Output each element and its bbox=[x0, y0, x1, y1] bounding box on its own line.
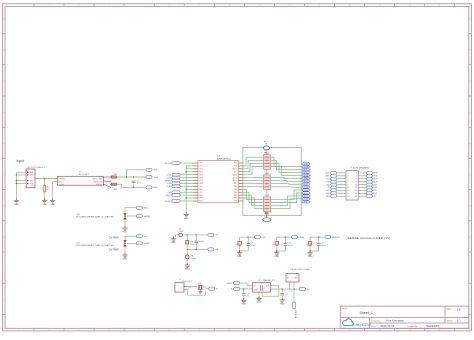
net flag SEGF2 bbox=[302, 201, 309, 204]
net flag AGND bbox=[208, 248, 214, 251]
svg-text:SEGF2: SEGF2 bbox=[303, 202, 308, 204]
net flag SEGD2 bbox=[302, 195, 309, 198]
capacitor C1 output bbox=[133, 177, 135, 179]
svg-text:Your Company: Your Company bbox=[386, 319, 404, 323]
wire cell L5 top bbox=[310, 236, 325, 238]
svg-text:FB2: FB2 bbox=[114, 189, 117, 191]
svg-text:DIG2: DIG2 bbox=[326, 193, 330, 195]
svg-text:L4: L4 bbox=[272, 244, 274, 246]
connector J1 bbox=[346, 171, 358, 201]
svg-text:OUT: OUT bbox=[266, 285, 270, 287]
wire SENSE4 to IC1 bbox=[180, 180, 193, 182]
svg-text:L3: L3 bbox=[235, 244, 237, 246]
svg-text:REV:: REV: bbox=[447, 309, 452, 311]
net flag REF bbox=[136, 235, 142, 238]
wire U4 pins down bbox=[289, 282, 291, 289]
wires J1 left bbox=[337, 173, 346, 196]
ground input rail bbox=[14, 198, 19, 203]
title block row line 2 bbox=[370, 322, 469, 324]
net flag REF bbox=[172, 191, 180, 194]
svg-text:1u: 1u bbox=[264, 287, 266, 289]
svg-text:PB0: PB0 bbox=[234, 198, 237, 200]
svg-text:XC1: XC1 bbox=[198, 283, 202, 285]
easyeda logo bbox=[343, 319, 354, 326]
net flag +3V3 bbox=[254, 236, 260, 239]
wires J1 right bbox=[358, 173, 366, 196]
svg-text:PC4: PC4 bbox=[234, 166, 238, 168]
svg-text:PD6: PD6 bbox=[199, 198, 203, 200]
resistor network RN2 bbox=[264, 175, 271, 190]
svg-text:Input: Input bbox=[17, 159, 25, 163]
svg-text:VBUS-IN: VBUS-IN bbox=[294, 311, 296, 319]
junction opamp input bbox=[243, 288, 244, 289]
svg-text:DIG5: DIG5 bbox=[373, 184, 377, 186]
svg-text:PB6: PB6 bbox=[199, 189, 202, 191]
svg-text:SW/Ind 3V3: SW/Ind 3V3 bbox=[93, 179, 103, 181]
svg-text:DRVIN: DRVIN bbox=[166, 195, 172, 197]
svg-text:SAGND: SAGND bbox=[143, 215, 150, 218]
svg-text:J: J bbox=[470, 299, 471, 301]
ground cell L5 bbox=[308, 251, 313, 256]
net flag SEGF1 bbox=[302, 177, 309, 180]
capacitor C13 out bbox=[281, 289, 283, 293]
svg-text:Company:: Company: bbox=[371, 320, 381, 322]
svg-text:14: 14 bbox=[355, 190, 357, 192]
svg-text:GND: GND bbox=[50, 204, 55, 206]
title block row line 1 bbox=[340, 317, 469, 319]
svg-text:ICP1 (MLW66): ICP1 (MLW66) bbox=[353, 167, 369, 169]
inductor L3 bbox=[239, 237, 241, 242]
wire DRVIN to IC1 bbox=[180, 194, 193, 196]
net flag VSW bbox=[146, 175, 152, 178]
ground L1 input bbox=[171, 237, 176, 242]
ground crystal bbox=[198, 290, 202, 293]
svg-text:3: 3 bbox=[347, 176, 348, 178]
svg-text:7: 7 bbox=[347, 181, 348, 183]
svg-text:15: 15 bbox=[347, 193, 349, 195]
net flag VBUS vertical bbox=[293, 302, 296, 309]
pin U1 outputs bbox=[104, 177, 112, 187]
svg-text:4K7: 4K7 bbox=[46, 189, 49, 191]
net flag opamp in a bbox=[234, 282, 241, 285]
junction cell L3 gnd bbox=[239, 250, 240, 251]
svg-text:100nF: 100nF bbox=[288, 245, 294, 247]
wire L1 left to ground bbox=[176, 235, 185, 237]
svg-text:AREF(1V): AREF(1V) bbox=[332, 236, 341, 239]
svg-text:CON5: CON5 bbox=[166, 186, 171, 188]
svg-text:PWRIN: PWRIN bbox=[59, 179, 66, 181]
svg-text:REF1N: REF1N bbox=[227, 283, 234, 285]
net flag DRVIN bbox=[172, 194, 180, 197]
net flag +5V out bbox=[299, 288, 306, 291]
svg-text:GND: GND bbox=[280, 303, 285, 305]
svg-text:11: 11 bbox=[347, 187, 349, 189]
title block outline bbox=[340, 306, 469, 328]
net flag SENSE bbox=[136, 242, 142, 245]
junction R6 tap bbox=[44, 178, 45, 179]
net flag SEGB1 bbox=[302, 165, 309, 168]
svg-text:PB4: PB4 bbox=[234, 186, 237, 188]
pins IC1 left bbox=[193, 163, 198, 201]
svg-text:12: 12 bbox=[355, 187, 357, 189]
svg-text:SEGG: SEGG bbox=[373, 178, 379, 180]
svg-text:17: 17 bbox=[347, 196, 349, 198]
svg-text:PC6: PC6 bbox=[234, 201, 238, 203]
svg-text:RST: RST bbox=[327, 181, 330, 183]
svg-text:PB2: PB2 bbox=[234, 192, 237, 194]
title block divider logo bbox=[369, 318, 371, 329]
junction cell L4 gnd bbox=[276, 250, 277, 251]
junction cell L3 bbox=[248, 236, 249, 237]
svg-text:1u: 1u bbox=[247, 295, 249, 297]
svg-text:GND: GND bbox=[171, 242, 176, 244]
capacitor C12 bbox=[318, 237, 320, 244]
svg-text:PGND: PGND bbox=[59, 184, 65, 186]
svg-text:GND: GND bbox=[42, 204, 47, 206]
svg-text:Date:: Date: bbox=[371, 325, 377, 328]
svg-text:MAX604-3.3: MAX604-3.3 bbox=[263, 279, 275, 282]
svg-text:PD3: PD3 bbox=[199, 171, 203, 173]
junction cell L5 bbox=[318, 236, 319, 237]
net flag opamp in b bbox=[234, 287, 241, 290]
svg-text:+3V3: +3V3 bbox=[153, 170, 157, 172]
svg-text:5: 5 bbox=[347, 178, 348, 180]
net flag SEGB2 bbox=[302, 189, 309, 192]
net flag SEGA2 bbox=[302, 186, 309, 189]
resistor R6 bbox=[44, 179, 46, 186]
svg-text:RN1: RN1 bbox=[265, 153, 269, 155]
svg-text:SENSE: SENSE bbox=[143, 243, 150, 245]
wire cell L3 bottom bbox=[240, 250, 249, 252]
ground cell L3 bbox=[237, 251, 242, 256]
svg-text:+5V0B: +5V0B bbox=[153, 177, 159, 179]
svg-text:PB7: PB7 bbox=[199, 192, 202, 194]
net flag SENSE4 bbox=[172, 179, 180, 182]
svg-text:GND: GND bbox=[123, 231, 128, 233]
svg-text:GND: GND bbox=[123, 258, 128, 260]
svg-text:DIG1: DIG1 bbox=[326, 190, 330, 192]
svg-text:PD0: PD0 bbox=[199, 163, 203, 165]
svg-text:100nF: 100nF bbox=[199, 241, 205, 243]
svg-text:PB5: PB5 bbox=[234, 183, 237, 185]
svg-text:PD1: PD1 bbox=[199, 166, 203, 168]
ground C13 bbox=[280, 298, 285, 303]
svg-text:ADP3-NET: ADP3-NET bbox=[79, 173, 90, 176]
wire REF to IC1 bbox=[180, 191, 193, 193]
svg-text:EasyEDA: EasyEDA bbox=[352, 323, 371, 327]
svg-text:ACSET: ACSET bbox=[165, 200, 171, 203]
resistor network RN1 bbox=[264, 155, 271, 170]
svg-text:OUT: OUT bbox=[294, 278, 298, 280]
wire opamp input bbox=[240, 283, 253, 285]
svg-text:PD2: PD2 bbox=[199, 169, 203, 171]
wire IC3 output loop bbox=[262, 285, 279, 296]
svg-text:1.0: 1.0 bbox=[457, 308, 461, 312]
wire IC3 ground bbox=[258, 292, 260, 297]
svg-text:18: 18 bbox=[355, 196, 357, 198]
junction input rail bbox=[16, 174, 17, 175]
svg-text:J: J bbox=[3, 299, 4, 301]
pins Y1 bbox=[184, 286, 187, 288]
wire L1 output row bbox=[185, 234, 208, 236]
wire R6 to ground bbox=[44, 192, 46, 199]
wire CON5 to IC1 bbox=[180, 185, 193, 187]
wire CON3 to IC1 bbox=[180, 182, 193, 184]
svg-text:PD7: PD7 bbox=[199, 201, 203, 203]
junction cell L5 gnd bbox=[309, 250, 310, 251]
svg-text:PB3: PB3 bbox=[234, 189, 237, 191]
pin numbers J1 bbox=[347, 173, 356, 198]
svg-text:GND: GND bbox=[185, 268, 190, 270]
junction L1 b bbox=[187, 249, 188, 250]
wire RN1 to RN2 link bbox=[266, 169, 268, 175]
svg-text:2V REF: 2V REF bbox=[109, 248, 119, 252]
net flag PD0 row1 bbox=[172, 162, 180, 165]
capacitor inside IC3 bbox=[260, 285, 262, 291]
svg-text:PD4: PD4 bbox=[199, 174, 203, 176]
connector J4 bbox=[26, 169, 35, 188]
capacitor C16 bbox=[195, 235, 197, 241]
wire RN right staircase to labels bbox=[270, 157, 302, 209]
wire CONV to IC1 bbox=[180, 174, 193, 176]
svg-text:TITLE:: TITLE: bbox=[342, 308, 348, 310]
svg-text:MISO: MISO bbox=[326, 176, 331, 178]
svg-text:F1: F1 bbox=[264, 141, 266, 143]
svg-text:Stellar823: Stellar823 bbox=[427, 324, 440, 328]
net flag CON3 bbox=[172, 182, 180, 185]
svg-text:100nF: 100nF bbox=[321, 245, 327, 247]
junction FB1 node bbox=[126, 176, 127, 177]
svg-text:SEGF: SEGF bbox=[373, 176, 378, 178]
svg-text:1/1: 1/1 bbox=[457, 319, 461, 323]
svg-text:GND: GND bbox=[14, 204, 19, 206]
svg-text:DIG3: DIG3 bbox=[326, 196, 330, 198]
net flags J1 left bbox=[331, 171, 337, 174]
svg-text:10: 10 bbox=[355, 184, 357, 186]
svg-text:MIC5205-3.3YM5: MIC5205-3.3YM5 bbox=[294, 269, 311, 271]
svg-text:SOLDERJUMPER_NMH CLOPASTED: SOLDERJUMPER_NMH CLOPASTED bbox=[76, 216, 115, 219]
svg-text:+3V3: +3V3 bbox=[261, 237, 265, 239]
wire cell L5 bottom bbox=[310, 250, 319, 252]
svg-text:PC5: PC5 bbox=[234, 163, 238, 165]
svg-text:2019-12-03: 2019-12-03 bbox=[381, 324, 395, 328]
svg-text:2V REF: 2V REF bbox=[109, 236, 119, 240]
svg-text:ATMEGA168-A: ATMEGA168-A bbox=[217, 157, 231, 160]
junction cell L4 bbox=[285, 236, 286, 237]
wire SJ2 to flags bbox=[125, 208, 136, 213]
svg-text:GND: GND bbox=[233, 171, 238, 173]
ground regulator bbox=[50, 198, 55, 203]
svg-text:GND: GND bbox=[257, 302, 262, 304]
net flag AVDD bbox=[136, 206, 142, 209]
svg-text:16: 16 bbox=[355, 193, 357, 195]
svg-text:FB/Sns: FB/Sns bbox=[96, 184, 102, 186]
ground SJ2 bbox=[122, 226, 127, 231]
svg-text:GND: GND bbox=[30, 183, 35, 185]
net flag +3V3 bbox=[146, 168, 152, 171]
svg-text:2: 2 bbox=[356, 173, 357, 175]
jumper on bus bottom bbox=[265, 212, 269, 214]
svg-text:1: 1 bbox=[347, 173, 348, 175]
svg-text:GND: GND bbox=[30, 175, 35, 177]
svg-text:ADC6: ADC6 bbox=[233, 176, 238, 179]
net flag SEGE1 bbox=[302, 174, 309, 177]
wire SJ1 to flags bbox=[125, 236, 136, 240]
ground R6 bbox=[42, 198, 47, 203]
wire VBUS down bbox=[293, 289, 295, 302]
svg-text:CONV: CONV bbox=[166, 174, 172, 176]
net flag ACSET bbox=[172, 200, 180, 203]
net flag AREF(1V) bbox=[325, 236, 331, 239]
ferrite bead FB2 bbox=[111, 183, 116, 185]
svg-text:L5: L5 bbox=[306, 244, 308, 246]
svg-text:+3V3A: +3V3A bbox=[298, 236, 304, 239]
wire cell L4 top bbox=[277, 236, 292, 238]
svg-text:GND: GND bbox=[308, 256, 313, 258]
wire bus ring bbox=[243, 147, 301, 215]
svg-text:GND: GND bbox=[184, 218, 189, 220]
svg-text:SENSE connect to REF (1V): SENSE connect to REF (1V) bbox=[347, 236, 390, 240]
net flag SAGND bbox=[136, 214, 142, 217]
wire cell L4 bottom bbox=[277, 250, 286, 252]
svg-text:SWTXD: SWTXD bbox=[165, 163, 172, 165]
svg-text:CON3: CON3 bbox=[166, 183, 171, 185]
resistor network RN3 bbox=[264, 197, 271, 212]
wire RN2 to RN3 link bbox=[266, 190, 268, 197]
net flag AVCC bbox=[208, 233, 214, 236]
net flag SEGC2 bbox=[302, 192, 309, 195]
ground cell L4 bbox=[274, 251, 279, 256]
svg-text:100nF: 100nF bbox=[251, 245, 257, 247]
svg-text:PD5: PD5 bbox=[199, 195, 203, 197]
svg-text:SOLDERJUMPER_NMH CLOPASTED: SOLDERJUMPER_NMH CLOPASTED bbox=[76, 244, 115, 247]
ground L1 filter bbox=[185, 263, 190, 268]
wire Y1 osc1 bbox=[187, 286, 198, 288]
wire IC1 supply rail bbox=[186, 166, 193, 213]
net flag oscillator out bbox=[209, 287, 215, 290]
svg-text:REF: REF bbox=[168, 192, 171, 194]
capacitor C15 bbox=[186, 235, 188, 241]
ground SJ1 bbox=[122, 253, 127, 258]
svg-text:SENSE4: SENSE4 bbox=[164, 180, 171, 182]
svg-text:ADC7: ADC7 bbox=[233, 168, 238, 171]
svg-text:Sheet:: Sheet: bbox=[447, 319, 454, 322]
net flag +3V3A bbox=[292, 236, 298, 239]
svg-text:Drawn By:: Drawn By: bbox=[408, 325, 418, 328]
svg-text:Sheet_1: Sheet_1 bbox=[360, 311, 373, 315]
capacitor C17 lower bbox=[186, 249, 188, 255]
wire J4 to regulator bbox=[35, 178, 58, 180]
junction supply rail bbox=[186, 171, 187, 172]
title block divider rev bbox=[444, 306, 446, 323]
wire crystal to flag bbox=[202, 287, 209, 289]
capacitor C8 bbox=[247, 237, 249, 244]
wire SJ2 to ground bbox=[124, 220, 126, 227]
svg-text:4: 4 bbox=[356, 176, 357, 178]
svg-text:GND: GND bbox=[199, 183, 204, 185]
junction IC3 out bbox=[282, 288, 283, 289]
net flags J1 right bbox=[366, 171, 372, 174]
wire FB1 to flags bbox=[117, 176, 147, 178]
capacitor C14 bbox=[243, 289, 245, 293]
svg-text:GND: GND bbox=[241, 304, 246, 306]
svg-text:DIG6: DIG6 bbox=[373, 187, 377, 189]
wire FB2 to flag bbox=[117, 184, 146, 187]
reference IC3 bbox=[253, 283, 271, 293]
svg-text:DIG7: DIG7 bbox=[373, 190, 377, 192]
svg-text:MOSI: MOSI bbox=[326, 173, 331, 175]
net flag SEGD1 bbox=[302, 171, 309, 174]
ground IC3 bbox=[256, 296, 261, 301]
svg-text:CON4: CON4 bbox=[166, 177, 171, 179]
net flag 3V3A bbox=[146, 186, 152, 189]
regulator U1 ADP3-NET bbox=[58, 176, 104, 185]
svg-text:1u: 1u bbox=[285, 296, 287, 298]
svg-text:22p: 22p bbox=[188, 287, 191, 289]
net flag SEGG1 bbox=[302, 180, 309, 183]
svg-text:9: 9 bbox=[347, 184, 348, 186]
net flag CON4 bbox=[172, 176, 180, 179]
wire cell L3 top bbox=[240, 236, 255, 238]
svg-text:DC1X-MADE-I: DC1X-MADE-I bbox=[32, 166, 45, 169]
svg-text:8: 8 bbox=[356, 181, 357, 183]
inductor L5 bbox=[309, 237, 311, 242]
capacitor C10 bbox=[284, 237, 286, 244]
polyfuse oval on bus bottom bbox=[263, 218, 271, 222]
junction FB2 node bbox=[133, 187, 134, 188]
net flag SEGC1 bbox=[302, 168, 309, 171]
microcontroller IC1 bbox=[198, 161, 239, 203]
pins IC1 right bbox=[239, 163, 244, 201]
wire Y1 osc2 loop bbox=[187, 290, 206, 295]
net flag SEGP1 bbox=[302, 183, 309, 186]
svg-text:GND: GND bbox=[199, 177, 204, 179]
wire SJ1 to ground bbox=[124, 247, 126, 254]
svg-text:PB1: PB1 bbox=[234, 195, 237, 197]
wire IC1 to resistor networks staircase bbox=[244, 157, 264, 209]
ground IC1 bbox=[184, 212, 189, 217]
svg-text:DIG8: DIG8 bbox=[373, 193, 377, 195]
ground C14 bbox=[241, 298, 246, 303]
svg-text:13: 13 bbox=[347, 190, 349, 192]
wire L1 lower row bbox=[187, 248, 208, 250]
wire IC3 output bbox=[270, 288, 299, 290]
net flag SEGA1 bbox=[302, 163, 309, 166]
svg-text:AVCC: AVCC bbox=[232, 179, 238, 182]
svg-text:AVDD: AVDD bbox=[143, 207, 149, 210]
wire J4 pins to input rail bbox=[16, 172, 26, 198]
wire CON4 to IC1 bbox=[180, 177, 193, 179]
svg-text:100nF: 100nF bbox=[191, 258, 197, 260]
svg-text:J1: J1 bbox=[350, 167, 352, 169]
svg-text:GND: GND bbox=[237, 256, 242, 258]
junction L1 a bbox=[187, 234, 188, 235]
svg-text:6: 6 bbox=[356, 178, 357, 180]
net flag CONV bbox=[172, 173, 180, 176]
svg-text:GND: GND bbox=[274, 256, 279, 258]
inductor L4 bbox=[276, 237, 278, 242]
regulator U4 bbox=[286, 274, 299, 283]
net flag SEGE2 bbox=[302, 198, 309, 201]
net flag CON5 bbox=[172, 185, 180, 188]
wire RN3 to jumper link bbox=[266, 212, 268, 213]
wire regulator gnd pin bbox=[53, 181, 58, 183]
